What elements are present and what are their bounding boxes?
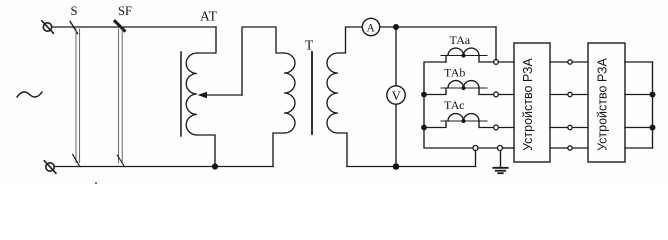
- wire top rail down to TAa terminal: [495, 27, 497, 60]
- wire tap bridge to T primary: [242, 27, 284, 95]
- T core bar: [311, 52, 313, 134]
- terminal bottom: [44, 161, 56, 173]
- terminal common left: [473, 146, 478, 151]
- wire ammeter to node: [380, 26, 396, 28]
- wire bottom rail middle: [347, 166, 396, 168]
- wire top rail: [52, 26, 216, 28]
- relay device box 1: [514, 43, 550, 162]
- switch S: [70, 22, 80, 167]
- svg-text:ТАb: ТАb: [444, 66, 465, 80]
- svg-text:ТАа: ТАа: [450, 33, 471, 47]
- terminal TAb right: [494, 92, 499, 97]
- current transformer TAb: [424, 81, 494, 95]
- svg-text:Устройство РЗА: Устройство РЗА: [596, 57, 610, 150]
- junction dot bus TAb: [421, 92, 427, 98]
- svg-text:АТ: АТ: [200, 9, 218, 24]
- AT tap arrow: [198, 92, 243, 98]
- wires box2 to right bus: [625, 62, 656, 148]
- current transformer TAc: [424, 114, 494, 128]
- autotransformer AT winding: [186, 53, 197, 135]
- breaker SF: [115, 21, 125, 167]
- svg-text:Устройство РЗА: Устройство РЗА: [521, 57, 535, 150]
- svg-text:S: S: [71, 4, 78, 18]
- svg-text:ТАс: ТАс: [444, 98, 464, 112]
- terminal TAc right: [494, 125, 499, 130]
- voltmeter V: [387, 86, 405, 104]
- transformer T primary winding: [284, 53, 295, 133]
- wire T secondary top to ammeter: [338, 27, 362, 53]
- wire node to voltmeter: [395, 27, 397, 86]
- terminal TAa right: [494, 60, 499, 65]
- svg-text:V: V: [392, 89, 401, 103]
- relay device box 2: [588, 43, 625, 162]
- current transformer TAa: [441, 48, 494, 62]
- AT core bar: [180, 52, 182, 136]
- wire bottom rail: [54, 166, 273, 168]
- wire T secondary bottom to bottom rail: [338, 133, 347, 167]
- junction dot AT bottom: [212, 163, 218, 169]
- terminal top: [42, 21, 54, 33]
- transformer T secondary winding: [327, 53, 338, 133]
- node junction top: [393, 24, 399, 30]
- wire bottom rail right: [396, 166, 476, 168]
- left bus of current transformers: [424, 62, 473, 148]
- AC source tilde: [17, 92, 42, 97]
- svg-text:А: А: [367, 23, 376, 35]
- wire voltmeter to bottom rail: [395, 104, 397, 166]
- autotransformer AT input wires: [197, 27, 216, 53]
- wire bottom rail up to terminal: [475, 150, 477, 166]
- wire T primary bottom to bottom rail: [273, 133, 284, 167]
- wires between boxes: [550, 60, 588, 150]
- terminal ground tap: [498, 146, 503, 151]
- AT output wire to bottom rail: [197, 135, 215, 167]
- svg-text:Т: Т: [305, 38, 314, 53]
- svg-text:SF: SF: [118, 4, 132, 18]
- ground: [493, 151, 507, 174]
- wire top rail right: [396, 26, 496, 28]
- junction dot bus TAc: [421, 125, 427, 131]
- artifact mark: [95, 182, 97, 184]
- ammeter A: [362, 18, 379, 35]
- node junction bottom: [393, 163, 400, 170]
